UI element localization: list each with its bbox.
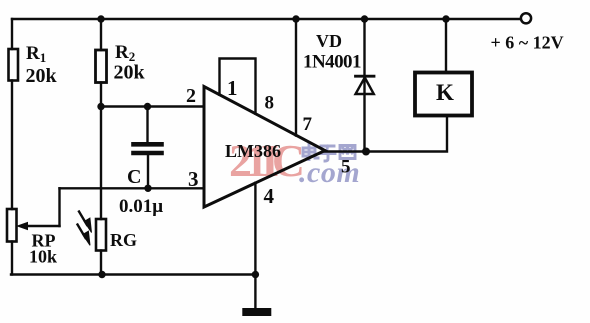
photoresistor RG [96,219,106,251]
wire left column upper (R1 top lead) [11,19,13,49]
wire top supply rail [12,18,520,20]
wire bottom ground rail [11,273,255,275]
pin 7 [303,114,313,135]
svg-text:R1: R1 [26,43,46,65]
svg-text:20k: 20k [114,62,146,84]
wire pin7 to supply rail [295,19,297,136]
wire pin4 to ground rail [254,183,256,275]
svg-text:VD: VD [316,31,342,51]
svg-text:LM386: LM386 [225,141,281,161]
label C [127,166,141,188]
电 [303,145,318,160]
svg-text:1N4001: 1N4001 [303,52,361,73]
wire R2 top lead [100,19,102,50]
watermark .com blue [299,156,360,189]
pin 3 [188,167,199,191]
diode VD column wire [363,19,365,152]
pin 8 [265,93,275,114]
wire output pin5 to node [325,150,366,152]
label R1 [26,43,58,87]
node pin4 ground [252,271,259,278]
label 0.01u [119,196,163,217]
wire pin3 input line [60,187,204,189]
op-amp U1 LM386 triangle [204,87,325,208]
pin 4 [264,184,275,208]
node pin7 top [292,15,299,22]
node relay top [442,15,449,22]
label K [436,80,454,105]
node output [362,148,370,156]
node R2 bottom [97,103,104,110]
svg-text:4: 4 [264,184,275,208]
svg-text:7: 7 [303,114,313,135]
svg-text:.com: .com [299,156,360,189]
node RG bottom [98,271,105,278]
wire relay K top lead [445,19,447,73]
resistor R1 [9,49,19,81]
svg-text:RG: RG [110,230,137,250]
wire RP wiper up to pin3 line [58,188,60,226]
wire output node to relay bottom [366,116,447,152]
wire RP bottom to ground rail [11,242,13,275]
relay K box [415,73,472,116]
label +6-12V [491,33,564,53]
RG light arrow 2 [78,225,86,239]
wire capacitor bottom lead [147,156,149,189]
svg-text:K: K [436,80,454,105]
svg-text:8: 8 [265,93,275,114]
label RG [110,230,137,250]
svg-text:10k: 10k [29,247,57,267]
node capacitor bottom [144,185,151,192]
wire R2 bottom to node [100,83,102,107]
wire capacitor top lead [146,107,148,143]
pin 1 [227,76,238,100]
wire node to RG top [100,107,102,220]
label RP [29,231,57,267]
ground [243,309,271,316]
node capacitor top [144,103,151,110]
resistor R2 [96,50,107,83]
子 [320,146,335,161]
pin 5 [341,157,351,178]
watermark 21IC red [229,135,302,186]
capacitor C plates [134,144,162,153]
terminal +V open circle [521,13,531,23]
svg-text:+ 6 ~ 12V: + 6 ~ 12V [491,33,564,53]
label 1N4001 [303,52,361,73]
svg-text:0.01μ: 0.01μ [119,196,163,217]
watermark dianziwang blue glyphs [303,145,355,162]
label R2 [114,42,146,84]
wire RG bottom to ground rail [100,251,102,275]
label LM386 [225,141,281,161]
pin 2 [186,85,196,107]
label VD [316,31,342,51]
svg-text:2: 2 [186,85,196,107]
svg-text:3: 3 [188,167,199,191]
wire R1 bottom to RP top [11,81,13,210]
node R2 top [97,15,104,22]
svg-text:C: C [127,166,141,188]
RP wiper arrow [24,225,60,227]
svg-text:20k: 20k [26,65,58,87]
pin1-8 bypass loop rectangle [220,59,256,114]
node diode top [361,15,368,22]
svg-text:1: 1 [227,76,238,100]
diode VD symbol [356,75,375,78]
RG light arrow 1 [79,212,87,226]
网 [340,146,355,159]
wire pin4 junction down to ground symbol [254,275,256,309]
wire pin2 input line [101,105,204,107]
potentiometer RP [7,209,17,242]
svg-text:5: 5 [341,157,351,178]
